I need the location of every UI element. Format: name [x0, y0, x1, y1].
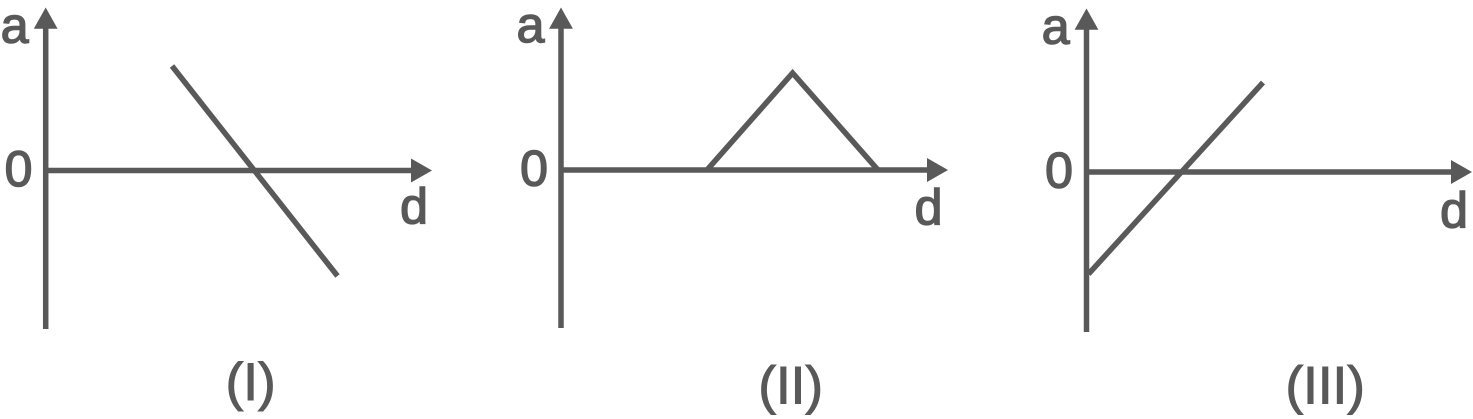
svg-text:d: d: [915, 180, 943, 236]
svg-text:(I): (I): [226, 353, 276, 412]
graph I d-axis arrowhead: [411, 159, 432, 183]
graph I a-axis arrowhead: [34, 8, 58, 29]
svg-text:0: 0: [1045, 143, 1073, 199]
svg-text:0: 0: [520, 141, 548, 197]
svg-text:a: a: [1042, 0, 1070, 55]
graph II vertical axis (a-axis): [558, 26, 564, 328]
svg-text:d: d: [400, 179, 428, 235]
graph II horizontal axis (d-axis): [559, 167, 931, 173]
graph III sloped line (positive slope): [1089, 83, 1264, 275]
svg-text:(II): (II): [758, 357, 823, 416]
graph III d-axis arrowhead: [1451, 160, 1472, 184]
svg-text:(III): (III): [1285, 357, 1364, 416]
graph I horizontal axis (d-axis): [43, 168, 414, 174]
graph II d-axis arrowhead: [927, 158, 948, 182]
graph II a-axis arrowhead: [549, 8, 573, 29]
svg-text:a: a: [517, 0, 545, 53]
graph I sloped line (negative slope): [172, 66, 338, 276]
graph III vertical axis (a-axis): [1084, 27, 1090, 332]
graph II triangle pulse curve: [707, 73, 878, 170]
graph III horizontal axis (d-axis): [1084, 169, 1454, 175]
svg-text:0: 0: [5, 141, 33, 197]
svg-text:a: a: [1, 0, 29, 54]
svg-text:d: d: [1440, 183, 1468, 239]
graph III a-axis arrowhead: [1075, 9, 1099, 30]
graph I vertical axis (a-axis): [43, 26, 49, 329]
